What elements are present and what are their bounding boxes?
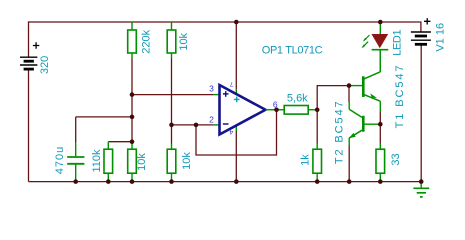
node dot feedback	[194, 123, 199, 128]
resistor 33	[376, 144, 385, 182]
node dot top rail LED	[378, 20, 383, 25]
wire T1 emitter to T2 base node	[379, 112, 381, 124]
wire battery B1 bottom to bottom rail	[28, 70, 30, 182]
pin stub 6 output	[266, 109, 277, 111]
battery B1 320	[20, 42, 39, 69]
transistor T1 BC547	[349, 49, 380, 112]
node dot bottom rail op-amp	[234, 179, 239, 184]
svg-text:2: 2	[209, 114, 214, 124]
svg-text:5,6k: 5,6k	[287, 93, 308, 105]
wire top rail	[29, 22, 421, 57]
ground	[413, 182, 429, 197]
wire 110k branch horizontal	[108, 141, 132, 143]
resistor 10k bottom-mid	[167, 144, 176, 182]
pin stub V+	[235, 89, 237, 94]
wire capacitor top vertical	[75, 117, 77, 142]
wire op-amp V- to bottom rail	[235, 131, 237, 182]
op-amp teal plus mark	[234, 97, 240, 103]
capacitor C1 470u	[67, 142, 84, 181]
node dot bottom rail 1k	[315, 179, 320, 184]
svg-text:OP1 TL071C: OP1 TL071C	[262, 44, 323, 56]
wire T2 emitter to bottom rail	[348, 145, 350, 181]
wire output node down to 1k	[316, 110, 318, 144]
svg-text:T1 BC547: T1 BC547	[394, 64, 406, 129]
wire op-amp V+ from top rail	[235, 22, 237, 89]
wire pin2 node down to 10k bottom	[171, 125, 173, 144]
svg-text:320: 320	[39, 56, 51, 74]
node dot bottom rail 110k	[106, 179, 111, 184]
node dot A 220k/pin3	[130, 92, 135, 97]
node dot T2 base	[378, 122, 383, 127]
wire cap node down to 110k node	[131, 117, 133, 142]
svg-text:10k: 10k	[178, 32, 190, 50]
node dot bottom rail 10k mid	[169, 179, 174, 184]
svg-text:220k: 220k	[141, 29, 153, 53]
op-amp minus mark	[223, 123, 229, 125]
transistor T2 BC547	[349, 102, 380, 145]
svg-text:110k: 110k	[91, 149, 103, 173]
op-amp plus mark	[223, 91, 229, 97]
node dot cap branch	[130, 115, 135, 120]
resistor 1k	[313, 144, 322, 182]
pin stub 3	[213, 94, 220, 96]
wire 220k bottom to node A	[131, 59, 133, 95]
wire node A to op-amp pin 3	[132, 94, 213, 96]
wire capacitor branch horizontal	[76, 116, 132, 118]
svg-text:T2 BC547: T2 BC547	[333, 99, 345, 164]
LED1	[362, 22, 389, 72]
wire feedback loop	[196, 110, 277, 155]
pin stub 2	[213, 124, 220, 126]
node dot output	[274, 107, 279, 112]
wire bottom rail	[29, 181, 422, 183]
resistor 10k top	[167, 22, 176, 59]
wire T2 collector to T1 base node	[348, 86, 350, 102]
node dot bottom rail T2	[347, 179, 352, 184]
wire V1 bottom to ground node	[420, 45, 422, 182]
svg-text:LED1: LED1	[392, 30, 404, 56]
svg-text:7: 7	[229, 80, 233, 87]
wire output node up and to T1 base	[317, 86, 349, 110]
node dot bottom rail 10k left	[130, 179, 135, 184]
svg-text:10k: 10k	[136, 153, 148, 171]
resistor 220k	[128, 22, 137, 59]
wire node A down to cap node	[131, 95, 133, 117]
node dot bottom rail cap	[73, 179, 78, 184]
resistor 10k bottom-left	[128, 142, 137, 182]
svg-text:10k: 10k	[181, 152, 193, 170]
node dot pin2/10k	[169, 123, 174, 128]
op-amp U1 triangle	[220, 85, 266, 135]
pin stub V-	[235, 126, 237, 131]
svg-text:1k: 1k	[299, 154, 311, 166]
resistor 5,6k	[277, 106, 318, 115]
svg-text:4: 4	[229, 128, 233, 135]
svg-text:470u: 470u	[54, 146, 66, 174]
node dot 5,6k right	[315, 107, 320, 112]
wire 10k top to pin2 node vertical	[171, 59, 173, 125]
node dot 110k branch	[130, 139, 135, 144]
node dot T1 base	[347, 83, 352, 88]
svg-text:3: 3	[209, 84, 214, 94]
battery V1	[411, 18, 431, 44]
wire T2 base node down to 33	[379, 124, 381, 143]
node dot top rail op-amp power	[234, 20, 239, 25]
resistor 110k	[104, 142, 113, 182]
svg-text:V1 16: V1 16	[435, 23, 447, 52]
svg-text:33: 33	[390, 153, 402, 165]
wire pin2 node to op-amp pin 2	[172, 124, 214, 126]
node dot bottom rail 33	[378, 179, 383, 184]
node dot ground	[419, 179, 424, 184]
